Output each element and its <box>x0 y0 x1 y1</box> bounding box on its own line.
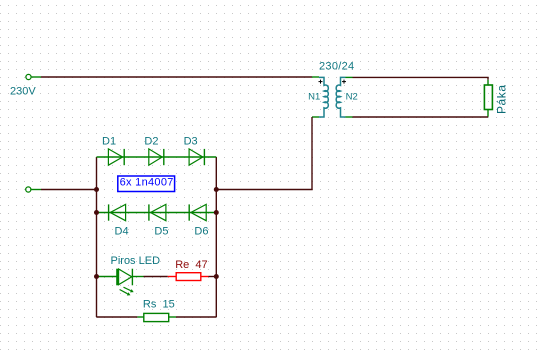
wire stub N2 bottom <box>346 116 353 118</box>
junction left middle <box>94 187 99 192</box>
diode D6 <box>189 204 206 220</box>
wire N1 bottom to bridge <box>216 117 312 190</box>
polarity mark N1 <box>319 80 323 84</box>
junction left row4 <box>94 274 99 279</box>
wire stub load bottom <box>487 110 489 117</box>
diode D1 <box>108 149 124 165</box>
value box frame 6x 1n4007 <box>118 176 175 192</box>
svg-text:D6: D6 <box>194 225 208 237</box>
diode D4 <box>109 204 126 220</box>
polarity mark N2 <box>342 80 346 84</box>
wire diode row top <box>97 156 217 158</box>
svg-text:Re 47: Re 47 <box>175 259 207 271</box>
svg-text:D2: D2 <box>144 136 158 148</box>
svg-text:Piros LED: Piros LED <box>111 255 161 267</box>
svg-text:230/24: 230/24 <box>319 61 354 73</box>
svg-text:D5: D5 <box>154 225 168 237</box>
junction left row2 <box>94 210 99 215</box>
wire Re to junction <box>209 276 217 278</box>
resistor load Páka <box>484 85 492 110</box>
junction right row2 <box>214 210 219 215</box>
LED Piros LED <box>116 269 134 296</box>
resistor Re 47 <box>168 273 209 281</box>
wire stub to N1 top <box>312 76 319 78</box>
junction right middle <box>214 187 219 192</box>
wire diode row bottom <box>97 212 217 214</box>
wire bottom left <box>97 316 138 318</box>
wire LED row left <box>97 276 118 278</box>
terminal T1 230V <box>26 74 41 79</box>
junction right row4 <box>214 274 219 279</box>
wire dark LED-Re <box>144 276 168 278</box>
svg-text:N2: N2 <box>346 92 358 103</box>
diode D3 <box>189 149 204 165</box>
svg-text:6x 1n4007: 6x 1n4007 <box>120 177 174 189</box>
svg-text:D3: D3 <box>184 136 198 148</box>
wire bottom right <box>176 316 216 318</box>
diode D5 <box>149 204 166 220</box>
wire stub load top <box>487 80 489 85</box>
terminal T2 <box>26 187 41 192</box>
svg-text:Rs 15: Rs 15 <box>143 299 175 311</box>
svg-text:D1: D1 <box>102 136 116 148</box>
wire T2 to bridge <box>41 189 97 191</box>
transformer winding N2 <box>336 77 345 117</box>
svg-text:D4: D4 <box>115 225 129 237</box>
svg-text:Páka: Páka <box>495 84 509 114</box>
wire bridge left vertical <box>96 157 98 317</box>
wire secondary bottom <box>353 116 489 118</box>
wire bridge right vertical <box>215 157 217 317</box>
wire stub N2 top <box>346 76 353 78</box>
svg-text:230V: 230V <box>10 85 36 97</box>
wire LED to Re <box>132 276 143 278</box>
resistor Rs 15 <box>137 313 176 321</box>
wire stub N1 bottom <box>312 116 319 118</box>
wire secondary top <box>353 77 489 79</box>
transformer winding N1 <box>319 77 328 117</box>
diode D2 <box>149 149 164 165</box>
svg-text:N1: N1 <box>308 92 320 103</box>
wire top primary <box>41 76 312 78</box>
